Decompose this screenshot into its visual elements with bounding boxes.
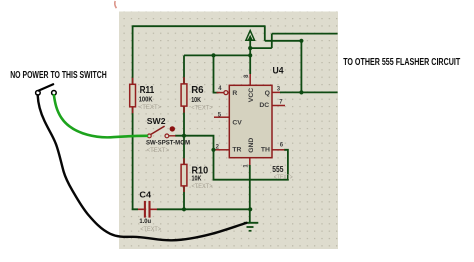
svg-text:SW2: SW2 — [147, 116, 166, 126]
svg-text:<TEXT>: <TEXT> — [147, 147, 170, 154]
svg-text:R6: R6 — [191, 85, 204, 96]
SW2 left pin stub — [146, 135, 148, 137]
svg-text:Q: Q — [265, 90, 270, 97]
wire: Q vertical to horizontal link — [300, 41, 302, 93]
resistor R6 — [181, 77, 187, 112]
node GND bottom — [248, 207, 252, 211]
wire: branch down to reset pin 4 — [214, 55, 219, 92]
SW2 lever — [151, 126, 165, 134]
wire: R10 bottom to bottom net — [183, 186, 185, 209]
svg-text:<TEXT>: <TEXT> — [139, 104, 162, 111]
pin 6 TH red stub — [272, 149, 285, 151]
svg-text:<TEXT>: <TEXT> — [274, 174, 293, 181]
op 555 timer U4 body — [229, 85, 272, 157]
node Q pin — [299, 90, 303, 94]
svg-text:R: R — [232, 90, 237, 97]
pin 1 GND red stub — [249, 158, 251, 166]
svg-text:TH: TH — [261, 147, 270, 154]
svg-text:10K: 10K — [192, 175, 202, 182]
wire: GND down to ground — [249, 165, 251, 223]
SW2 actuator dot — [170, 126, 175, 131]
power terminal arrow — [246, 31, 255, 41]
SW2 right terminal circle — [165, 134, 169, 138]
pin 4 inversion circle — [224, 91, 228, 95]
wire: top line to other circuit — [272, 33, 338, 35]
pin 5 CV red stub — [214, 116, 229, 118]
svg-text:1.0u: 1.0u — [139, 218, 151, 225]
pin 7 DC red stub — [272, 105, 285, 107]
svg-text:SW-SPST-MOM: SW-SPST-MOM — [146, 140, 190, 147]
annotation black curve to ground — [38, 95, 247, 240]
annotation terminal right — [52, 91, 57, 96]
wire: left border upper (to R11 top) — [132, 25, 134, 84]
annotation terminal left — [36, 91, 41, 96]
junction node dots — [182, 39, 304, 212]
switch SW2 — [146, 126, 176, 138]
svg-text:R11: R11 — [140, 85, 155, 96]
wire: R6 bottom to R10 top — [183, 106, 185, 164]
node power stem lower — [248, 53, 252, 57]
resistor R10 — [181, 158, 187, 192]
wire: switch to TR corner — [175, 136, 214, 150]
wire: Q rail step down from border — [264, 25, 266, 40]
svg-text:10K: 10K — [191, 97, 201, 104]
pin 2 TR red stub — [215, 149, 230, 151]
svg-text:100K: 100K — [139, 96, 153, 103]
svg-text:NO POWER TO THIS SWITCH: NO POWER TO THIS SWITCH — [10, 70, 107, 81]
wire: TR-TH lower loop — [214, 150, 288, 180]
node Q top — [299, 39, 303, 43]
wire: vertical link at x=271.8 — [271, 34, 273, 49]
node power stem upper — [248, 46, 252, 50]
svg-text:GND: GND — [248, 138, 255, 153]
ground symbol — [244, 223, 258, 231]
node R6-top / pin4 branch — [211, 53, 215, 57]
wire: horizontal net R6-top to power stem — [184, 54, 250, 56]
svg-text:<TEXT>: <TEXT> — [191, 104, 213, 111]
svg-text:VCC: VCC — [248, 88, 255, 102]
schematic canvas sheet — [119, 12, 338, 250]
svg-text:<TEXT>: <TEXT> — [140, 226, 161, 233]
svg-text:TR: TR — [232, 147, 241, 154]
svg-text:C4: C4 — [139, 190, 151, 200]
svg-text:TO OTHER 555 FLASHER CIRCUIT: TO OTHER 555 FLASHER CIRCUIT — [343, 56, 460, 68]
node switch / R6-R10 — [182, 134, 186, 138]
node R10 bottom — [182, 207, 186, 211]
pin 4 red stub — [217, 92, 224, 94]
annotation green wire to switch — [54, 95, 147, 137]
wire: R6 top lead up to VCC-left rail — [183, 55, 185, 84]
wire: Q horizontal link y=40.8 — [265, 40, 302, 42]
pin 8 red stub — [249, 74, 251, 85]
svg-text:DC: DC — [259, 102, 269, 109]
svg-text:CV: CV — [232, 120, 242, 127]
annotation lever — [39, 84, 54, 90]
pin 3 Q red stub — [272, 91, 281, 93]
wire: power stem green — [249, 40, 251, 74]
svg-text:<TEXT>: <TEXT> — [192, 183, 213, 190]
wire: left border lower (R11 bottom to bottom-left corner) — [133, 107, 138, 210]
resistor R11 — [130, 78, 136, 113]
node TR pin — [211, 148, 215, 152]
red smudge top-left of canvas — [115, 1, 117, 8]
wire: VCC link to power stem — [250, 47, 272, 49]
wire: bottom net C4 right to ground junction — [157, 208, 250, 210]
svg-text:U4: U4 — [273, 65, 285, 75]
SW2 right pin stub — [169, 135, 176, 137]
grid dots — [119, 12, 338, 250]
svg-text:555: 555 — [272, 165, 284, 174]
SW2 left terminal circle — [147, 134, 151, 138]
wire: Q output to right edge — [280, 91, 338, 93]
capacitor C4 — [138, 201, 157, 218]
wire: top VCC border rail — [133, 25, 265, 27]
